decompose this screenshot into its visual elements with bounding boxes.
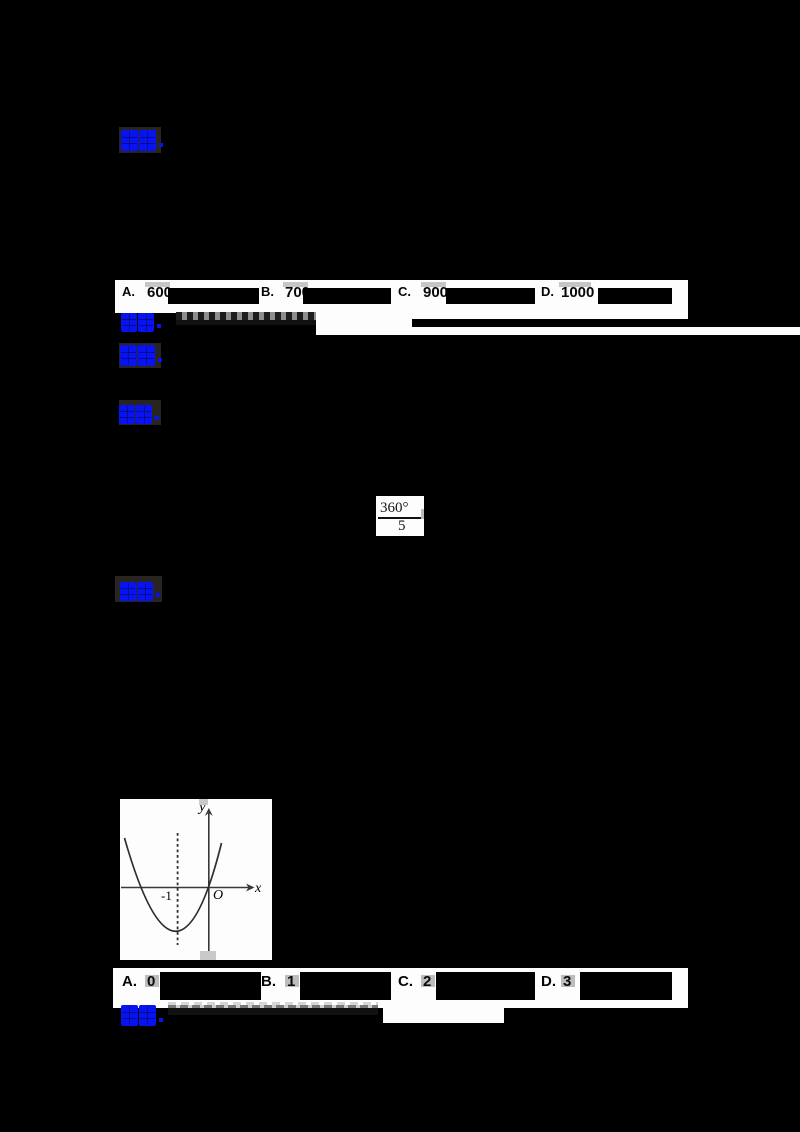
svg-text:O: O [213, 888, 223, 903]
svg-text:x: x [254, 881, 262, 896]
svg-text:-1: -1 [161, 888, 172, 903]
